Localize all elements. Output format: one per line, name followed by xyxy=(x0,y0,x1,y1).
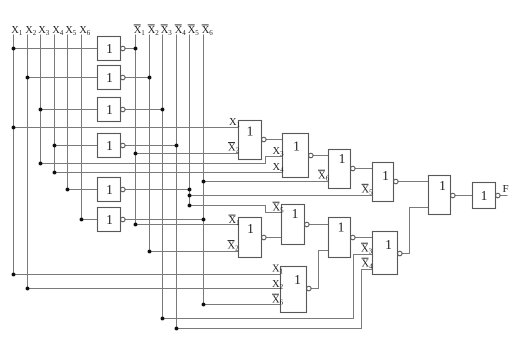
svg-text:1: 1 xyxy=(339,151,346,166)
wire U3 output to nX3 xyxy=(125,109,163,111)
junction nX4-bottom xyxy=(175,327,179,331)
svg-text:X1: X1 xyxy=(134,25,146,37)
wire U8 output to U9 input 1 xyxy=(313,155,329,157)
junction U5-nX5 xyxy=(188,188,192,192)
junction X5-U5 xyxy=(66,188,70,192)
svg-text:1: 1 xyxy=(106,138,113,153)
svg-text:X1: X1 xyxy=(11,25,23,37)
node X5 vertical rail xyxy=(67,35,69,190)
svg-text:F: F xyxy=(503,183,509,195)
svg-text:1: 1 xyxy=(292,206,299,221)
pin label nX1 at U11 xyxy=(229,215,241,227)
junction U1-nX1 xyxy=(134,47,138,51)
inverter U1 xyxy=(98,37,126,61)
node X6 vertical rail xyxy=(81,35,83,220)
junction U4-nX4 xyxy=(175,144,179,148)
wire X4 to U4 input xyxy=(55,145,98,147)
NOR gate U11 xyxy=(239,218,266,258)
node X1 vertical rail xyxy=(13,35,15,275)
NOR gate U12 xyxy=(282,205,309,245)
svg-text:X6: X6 xyxy=(318,170,330,182)
pin label nX6 at U15 xyxy=(272,294,284,306)
wire nX5 to U12 input 1 xyxy=(190,206,282,213)
junction X1-U1 xyxy=(12,47,16,51)
node label nX6 xyxy=(202,25,214,37)
pin label nX2 at U7 xyxy=(228,143,240,155)
node nX1 vertical rail xyxy=(135,35,137,225)
svg-text:X5: X5 xyxy=(65,25,77,37)
inverter U17 xyxy=(473,183,500,209)
junction X1-U15 xyxy=(12,273,16,277)
svg-text:1: 1 xyxy=(382,168,389,183)
wire U13 output to U14 input 1 xyxy=(355,237,373,239)
pin label nX2 at U11 xyxy=(228,241,240,253)
junction X2-U15 xyxy=(26,287,30,291)
junction nX6-U15 xyxy=(202,303,206,307)
wire X3 to U3 input xyxy=(41,109,98,111)
svg-text:1: 1 xyxy=(293,139,300,154)
wire nX1 to U7 input 2 xyxy=(136,153,239,155)
junction X1-U7 xyxy=(12,126,16,130)
svg-text:X2: X2 xyxy=(228,241,240,253)
node X4 vertical rail xyxy=(54,35,56,173)
svg-text:1: 1 xyxy=(385,237,392,252)
svg-text:X3: X3 xyxy=(161,25,173,37)
pin label nX5 at U10 xyxy=(362,184,374,196)
wire U2 output to nX2 xyxy=(125,77,150,79)
wire U10 output to U16 input 1 xyxy=(398,181,429,183)
svg-text:1: 1 xyxy=(481,188,488,203)
svg-text:X3: X3 xyxy=(361,243,373,255)
inverter U3 xyxy=(98,98,126,122)
svg-text:X4: X4 xyxy=(362,258,374,270)
pin label nX5 at U12 xyxy=(273,202,285,214)
wire X4 to U8 input 3 xyxy=(55,172,283,174)
wire nX3 bottom run to U14 input 2 xyxy=(163,255,373,319)
svg-text:X1: X1 xyxy=(229,117,241,129)
svg-text:X2: X2 xyxy=(148,25,160,37)
junction nX6-U9 xyxy=(202,180,206,184)
svg-text:X2: X2 xyxy=(228,143,240,155)
svg-text:X6: X6 xyxy=(202,25,214,37)
NOR gate U16 xyxy=(429,176,455,215)
inverter U2 xyxy=(98,66,126,90)
node label nX2 xyxy=(148,25,160,37)
svg-text:1: 1 xyxy=(106,212,113,227)
wire U12 output to U13 input 1 xyxy=(309,224,329,226)
wire U17 output to F xyxy=(500,195,508,197)
svg-text:1: 1 xyxy=(106,70,113,85)
junction X2-U2 xyxy=(26,76,30,80)
wire U14 output to U16 input 2 xyxy=(402,208,429,254)
svg-text:1: 1 xyxy=(247,221,254,236)
svg-text:X5: X5 xyxy=(188,25,200,37)
wire U11 output to U12 input 2 xyxy=(266,237,282,239)
wire U16 output to U17 input xyxy=(455,195,473,197)
node nX6 vertical rail xyxy=(203,35,205,305)
svg-text:1: 1 xyxy=(106,182,113,197)
wire X1 to U7 input 1 xyxy=(14,127,239,129)
wire X6 to U6 input xyxy=(82,219,98,221)
svg-text:X2: X2 xyxy=(25,25,37,37)
junction nX5-U10 xyxy=(188,194,192,198)
junction X3-U3 xyxy=(39,108,43,112)
wire nX2 to U11 input 2 xyxy=(150,251,239,253)
svg-text:1: 1 xyxy=(338,220,345,235)
wire nX6 to U15 input 3 xyxy=(204,304,281,306)
svg-text:X1: X1 xyxy=(272,264,284,276)
svg-text:1: 1 xyxy=(106,102,113,117)
wire X5 to U5 input xyxy=(68,189,98,191)
node label nX4 xyxy=(175,25,187,37)
pin label nX4 at U14 xyxy=(362,258,374,270)
junction X4-U8 xyxy=(53,171,57,175)
node X2 vertical rail xyxy=(27,35,29,289)
svg-text:X4: X4 xyxy=(175,25,187,37)
junction X6-U6 xyxy=(80,218,84,222)
junction nX1-U11 xyxy=(134,223,138,227)
NOR gate U13 xyxy=(329,218,355,258)
node nX2 vertical rail xyxy=(149,35,151,252)
junction nX2-U11 xyxy=(148,250,152,254)
wire U1 output to nX1 xyxy=(125,48,136,50)
inverter U4 xyxy=(98,134,126,158)
node nX4 vertical rail xyxy=(176,35,178,329)
wire nX6 to U9 input 2 xyxy=(204,181,329,183)
wire X1 to U15 input 1 xyxy=(14,274,281,276)
pin label nX6 at U9 xyxy=(318,170,330,182)
svg-text:1: 1 xyxy=(247,124,254,139)
node nX5 vertical rail xyxy=(189,35,191,206)
wire U4 output to nX4 xyxy=(125,145,177,147)
wire X2 to U15 input 2 xyxy=(28,288,281,290)
node nX3 vertical rail xyxy=(162,35,164,319)
junction U6-nX6 xyxy=(202,218,206,222)
wire X3 to U8 input 2 xyxy=(41,157,283,164)
node label nX5 xyxy=(188,25,200,37)
wire nX5 to U10 input 2 xyxy=(190,195,373,197)
wire U9 output to U10 input 1 xyxy=(355,168,373,170)
NOR gate U15 xyxy=(281,267,311,313)
NOR gate U8 xyxy=(283,134,313,178)
node X3 vertical rail xyxy=(40,35,42,164)
node label nX3 xyxy=(161,25,173,37)
NOR gate U7 xyxy=(239,121,266,160)
inverter U5 xyxy=(98,178,126,202)
svg-text:X5: X5 xyxy=(362,184,374,196)
junction nX5-U12 xyxy=(188,204,192,208)
wire U6 output to nX6 xyxy=(125,219,204,221)
NOR gate U14 xyxy=(373,232,402,275)
svg-text:1: 1 xyxy=(106,41,113,56)
svg-text:X6: X6 xyxy=(79,25,91,37)
NOR gate U9 xyxy=(329,150,355,189)
wire X2 to U2 input xyxy=(28,77,98,79)
node label nX1 xyxy=(134,25,146,37)
junction U3-nX3 xyxy=(161,108,165,112)
inverter U6 xyxy=(98,208,126,232)
NOR gate U10 xyxy=(373,163,398,202)
svg-text:X3: X3 xyxy=(38,25,50,37)
wire U5 output to nX5 xyxy=(125,189,190,191)
junction U2-nX2 xyxy=(148,76,152,80)
wire X1 to U1 input xyxy=(14,48,98,50)
svg-text:X4: X4 xyxy=(52,25,64,37)
junction X3-U8 xyxy=(39,162,43,166)
wire U15 output to U13 input 2 xyxy=(311,251,329,289)
svg-text:1: 1 xyxy=(294,272,301,287)
junction nX1-U7 xyxy=(134,152,138,156)
wire nX1 to U11 input 1 xyxy=(136,224,239,226)
wire U7 output to U8 input 1 xyxy=(266,139,283,141)
junction X4-U4 xyxy=(53,144,57,148)
svg-text:1: 1 xyxy=(439,178,446,193)
pin label nX3 at U14 xyxy=(361,243,373,255)
junction nX3-bottom xyxy=(161,317,165,321)
wire nX4 bottom run to U14 input 3 xyxy=(177,270,373,329)
